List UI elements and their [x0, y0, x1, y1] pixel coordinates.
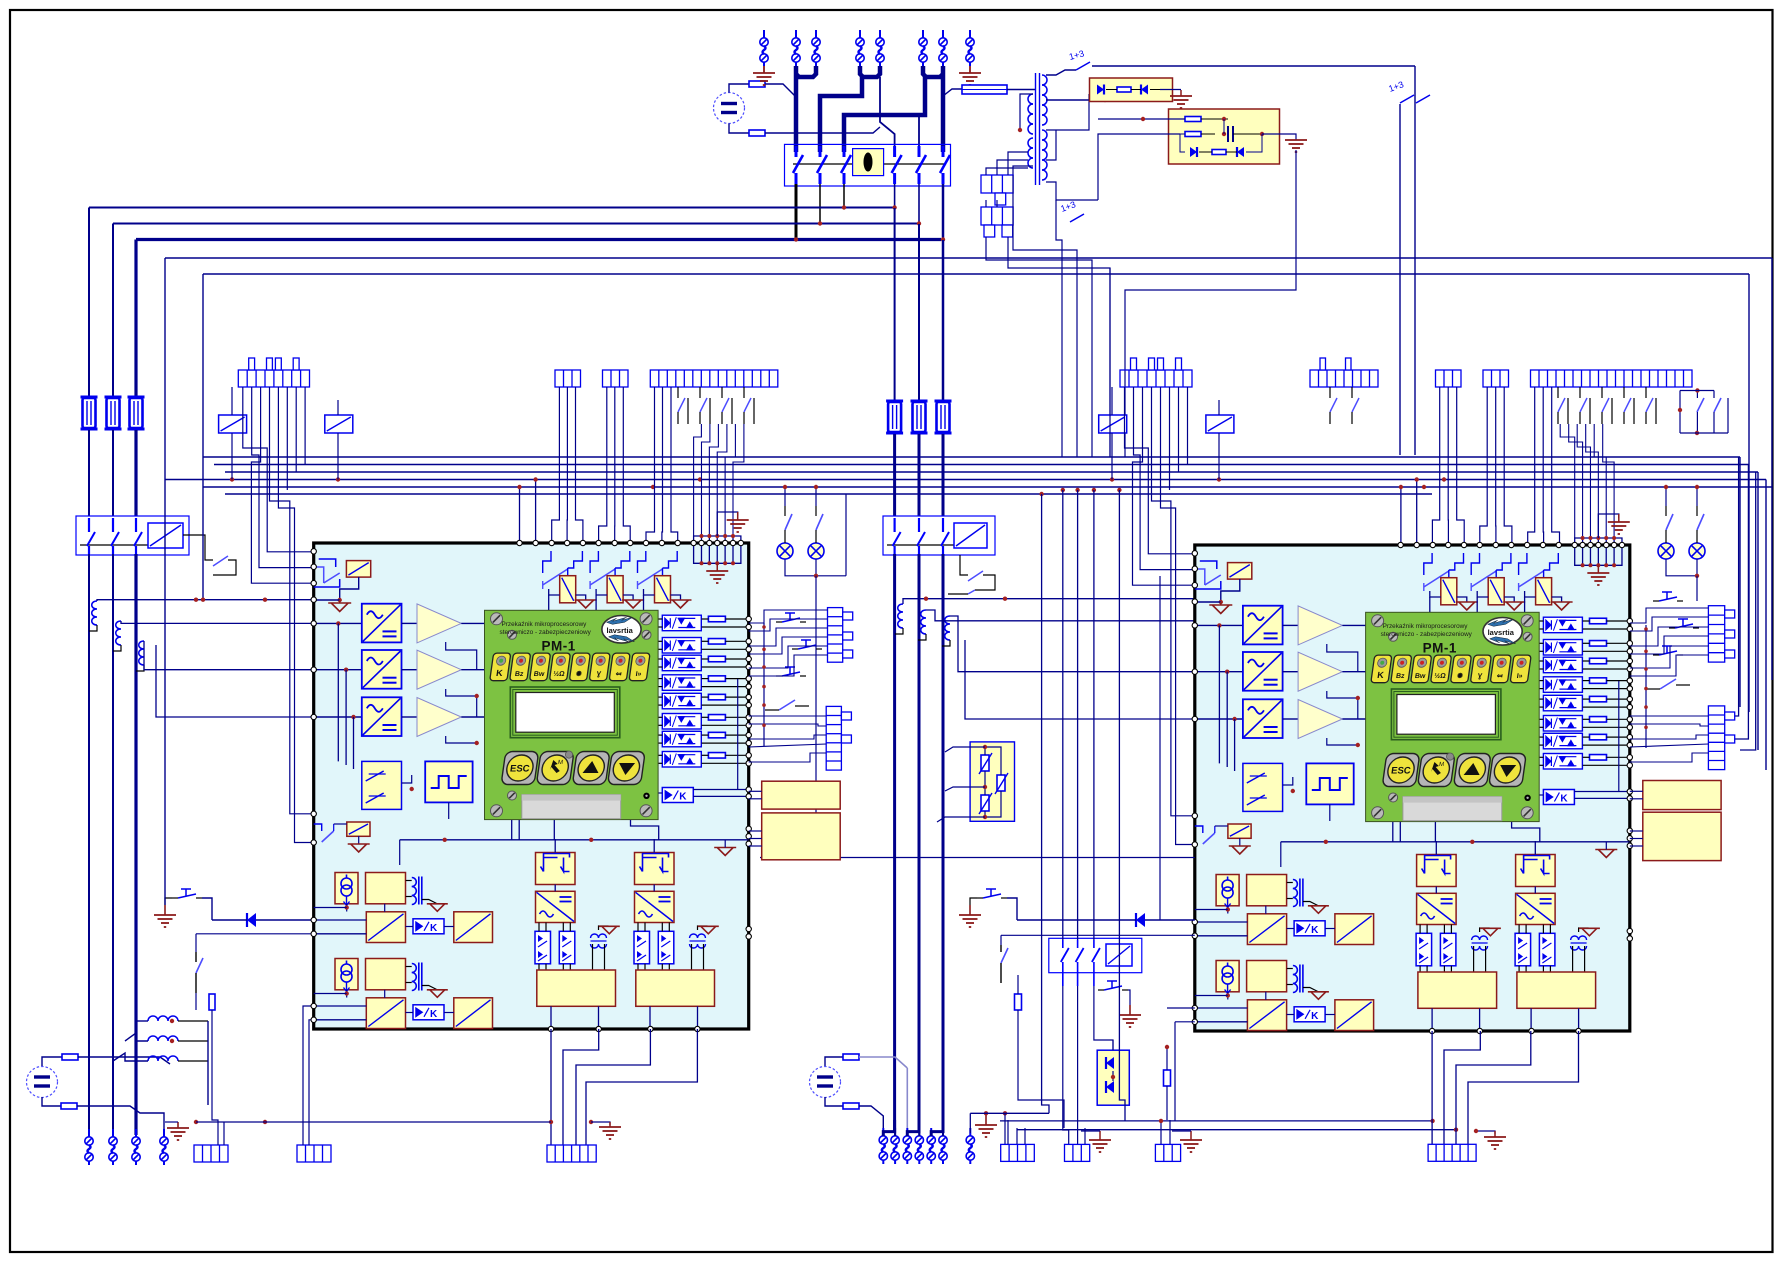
- wire: [1572, 946, 1574, 972]
- pin: [746, 794, 751, 799]
- strip cross wire: [760, 857, 1195, 859]
- band w2: [214, 464, 1749, 466]
- push button S4: [983, 889, 1001, 898]
- svg-text:K: K: [430, 1009, 438, 1020]
- feed M1 p599: [97, 600, 314, 601]
- Q3 relay: [954, 523, 987, 548]
- varistor box: [970, 742, 1014, 821]
- Q3 pole 3: [942, 518, 944, 532]
- amplifier A3: [1298, 700, 1342, 739]
- left bus 1c: [88, 554, 90, 1135]
- ground under X1: [763, 66, 765, 73]
- wire: [1227, 992, 1229, 1000]
- PSU2 CT box: [335, 959, 358, 990]
- wire: [637, 923, 639, 932]
- pin: [1446, 542, 1451, 547]
- wire: [165, 898, 172, 905]
- connector XC1: [1120, 370, 1192, 387]
- opto row 3: [662, 655, 701, 671]
- center vert 5: [1119, 490, 1125, 1121]
- aux switch LL: [314, 824, 322, 831]
- terminal Z4: [915, 1128, 923, 1164]
- diode box: [1097, 1050, 1129, 1105]
- wire: [859, 1106, 883, 1130]
- lamp H2: [808, 543, 824, 559]
- comb CB2: [1428, 1144, 1476, 1161]
- pin: [1596, 542, 1601, 547]
- wire row 2: [314, 716, 362, 718]
- wire: [1583, 680, 1590, 682]
- terminal X3: [812, 30, 820, 66]
- switch block: [1243, 763, 1283, 811]
- pin: [1627, 717, 1632, 722]
- Q2 pole 3: [135, 518, 137, 532]
- wire: [819, 184, 821, 224]
- ground tri PSU1: [1308, 906, 1329, 914]
- opto row 7: [1543, 733, 1582, 749]
- pin: [1627, 658, 1632, 663]
- pin: [746, 740, 751, 745]
- converter U2.1: [1243, 606, 1283, 645]
- terminal Z3: [903, 1128, 911, 1164]
- Q3 aux contact: [968, 571, 983, 581]
- wires into CM1: [1007, 1120, 1009, 1144]
- wire: [1435, 887, 1437, 894]
- relay K3: [655, 576, 671, 603]
- wire: [1534, 887, 1536, 894]
- resistor R13: [1015, 994, 1022, 1010]
- diode D7: [1106, 1057, 1114, 1069]
- opto return collector M2: [1645, 625, 1647, 748]
- Q2 pole 2: [112, 518, 114, 532]
- pin: [746, 834, 751, 839]
- res row 4: [708, 676, 725, 682]
- conv box 1: [536, 891, 576, 922]
- feed M2 p625: [926, 610, 1195, 621]
- pin: [715, 540, 720, 545]
- pin: [1627, 704, 1632, 709]
- Q3 pole 2: [918, 518, 920, 532]
- wire: [549, 589, 560, 595]
- pulse TR 2: [1571, 936, 1587, 950]
- svg-text:Przekaźnik mikroprocesorowy: Przekaźnik mikroprocesorowy: [1383, 623, 1469, 630]
- center bus drop 1: [894, 208, 896, 400]
- pin: [746, 934, 751, 939]
- wire: [1480, 928, 1490, 932]
- wire: [1128, 990, 1130, 1005]
- wire: [165, 1121, 178, 1123]
- amplifier A1: [1298, 606, 1342, 645]
- center bus drop 3: [942, 240, 945, 400]
- wire: [729, 84, 749, 93]
- pin: [699, 540, 704, 545]
- svg-text:✺: ✺: [575, 670, 582, 678]
- button UP: [572, 752, 610, 785]
- stair 4: [1008, 237, 1110, 457]
- relay KA4: [1206, 415, 1234, 433]
- relay K3: [1536, 578, 1552, 605]
- PSU2 coil: [1293, 965, 1303, 993]
- pin: [1192, 933, 1197, 938]
- aux contact XD4-3: [1601, 387, 1603, 398]
- wire: [196, 1121, 330, 1123]
- pin: [1192, 583, 1197, 588]
- opto return collector M1: [763, 623, 765, 746]
- wire: [1007, 898, 1017, 920]
- driver box 2: [636, 970, 715, 1006]
- ground tri TR2: [1579, 928, 1600, 936]
- driver box 1: [1418, 972, 1497, 1008]
- wire: [77, 1106, 164, 1133]
- varistor RV3: [981, 795, 989, 811]
- wire: [211, 1010, 213, 1106]
- LED button ✺: [569, 653, 590, 681]
- pin: [1461, 542, 1466, 547]
- wire row 2: [1195, 718, 1243, 720]
- PSU2 K opto: [1294, 1007, 1325, 1022]
- fuse F4: [962, 85, 1007, 94]
- wire: [1525, 591, 1536, 597]
- right pushbtn 1: [1659, 592, 1677, 601]
- svg-text:lavѕrtia: lavѕrtia: [607, 626, 634, 635]
- IGBT box 2: [635, 853, 675, 885]
- wire: [1098, 118, 1185, 120]
- wire: [702, 734, 709, 736]
- pin: [1588, 542, 1593, 547]
- wire: [1434, 822, 1436, 842]
- pin: [1398, 542, 1403, 547]
- PSU1 main box: [366, 873, 406, 904]
- wire: [402, 716, 418, 718]
- connector XD2: [1436, 370, 1462, 387]
- band drop M1b: [535, 480, 537, 544]
- tri out stair: [446, 642, 477, 670]
- wire: [765, 127, 880, 133]
- wire: [1399, 104, 1401, 455]
- LED button Ɣ: [1470, 655, 1491, 683]
- res row 7: [708, 732, 725, 738]
- ground tri K1: [575, 600, 597, 608]
- wire mid horiz: [400, 839, 749, 841]
- wire: [1017, 975, 1019, 994]
- button DN: [608, 752, 646, 785]
- opto 2.2: [658, 931, 674, 964]
- wire M2 SE: [1167, 1007, 1195, 1009]
- junction dots rows: [336, 621, 340, 625]
- resistor R14: [1164, 1070, 1171, 1086]
- center vert 3: [1077, 490, 1079, 940]
- pin: [311, 667, 316, 672]
- relay K1: [560, 576, 576, 603]
- junction dots bus rows: [842, 205, 846, 209]
- connector XD4: [1531, 370, 1693, 387]
- CT coil L3: [139, 641, 144, 665]
- wire right col: [1618, 681, 1620, 792]
- wire: [1004, 1113, 1006, 1144]
- pin: [746, 702, 751, 707]
- terminal Z2: [891, 1128, 899, 1164]
- diode D2: [1097, 85, 1104, 95]
- wire: [314, 1005, 367, 1007]
- wire: [1287, 882, 1293, 884]
- wire: [314, 599, 340, 601]
- pin: [648, 1026, 653, 1031]
- converter U2.2: [1243, 652, 1283, 691]
- ground tri PSU2: [1308, 992, 1329, 1000]
- terminal Z6: [939, 1128, 947, 1164]
- Q2 aux wire: [183, 535, 213, 560]
- wire: [1283, 671, 1299, 673]
- pin: [311, 621, 316, 626]
- mid yellow box 1: [762, 781, 841, 809]
- PSU1 K opto: [413, 919, 444, 934]
- wire gnd: [1303, 988, 1318, 992]
- terminal X4: [856, 30, 864, 66]
- breaker Q1 box: [785, 144, 951, 186]
- wires module2 to boxes: [1630, 790, 1643, 792]
- terminal X8: [966, 30, 974, 66]
- bus row B: [113, 223, 917, 225]
- PSU2 K opto: [413, 1005, 444, 1020]
- res row 5: [708, 694, 725, 700]
- wire: [1579, 928, 1589, 932]
- wire: [1542, 925, 1544, 934]
- comb CT2: [981, 207, 1013, 225]
- mid yellow box 2: [762, 813, 841, 860]
- aux contact XB3-2: [699, 387, 701, 398]
- snubber box B: [1169, 109, 1280, 164]
- pin: [746, 787, 751, 792]
- wire: [702, 618, 709, 620]
- pin: [746, 826, 751, 831]
- pin: [1192, 623, 1197, 628]
- ground: [969, 905, 971, 915]
- band drop M2a: [1400, 487, 1402, 545]
- pin: [1540, 542, 1545, 547]
- XB1 drops: [552, 387, 560, 543]
- Q2 pole 1: [88, 518, 90, 532]
- wire: [212, 919, 247, 921]
- Q3 pole 1: [893, 518, 895, 532]
- Q4 pole 1: [1062, 940, 1064, 948]
- pin: [1627, 696, 1632, 701]
- ground tri PSU1: [427, 904, 448, 912]
- svg-text:sterowniczo - zabezpieczeniowy: sterowniczo - zabezpieczeniowy: [1381, 631, 1473, 638]
- CT coil C1: [898, 604, 903, 628]
- pin: [1627, 666, 1632, 671]
- pin: [1627, 796, 1632, 801]
- wire: [78, 1057, 170, 1064]
- fuse F2: [105, 397, 122, 429]
- left drop x203: [202, 274, 204, 600]
- transformer T1 core: [1035, 73, 1037, 185]
- svg-text:½Ω: ½Ω: [553, 670, 566, 678]
- pin: [659, 540, 664, 545]
- opto row 3: [1543, 657, 1582, 673]
- contact sym 2: [590, 551, 598, 573]
- tri out stair: [1327, 644, 1358, 672]
- wire: [384, 904, 386, 912]
- wire: [1287, 968, 1293, 970]
- res row 1: [708, 616, 725, 622]
- ground Q4: [1129, 1005, 1131, 1015]
- pin: [580, 540, 585, 545]
- center bus 1c: [893, 554, 896, 1132]
- svg-text:K: K: [430, 923, 438, 934]
- XD4 elbow drops: [1560, 424, 1575, 538]
- box B wires: [1201, 118, 1228, 120]
- pin: [311, 1003, 316, 1008]
- pin: [738, 540, 743, 545]
- resistor R3: [62, 1054, 78, 1060]
- XD4 drops: [1528, 387, 1535, 545]
- opto 1.1: [535, 931, 551, 964]
- pin: [1627, 742, 1632, 747]
- module2 bottom wires: [1431, 1031, 1433, 1144]
- pulse TR 2: [690, 934, 706, 948]
- bus L3 step: [844, 75, 925, 152]
- wire: [511, 820, 513, 840]
- PSU1 CT sym: [341, 875, 352, 906]
- aux contact XB3-3: [721, 387, 723, 398]
- band w6: [225, 493, 1432, 495]
- lamp H1: [777, 543, 793, 559]
- bottom slot: [1403, 797, 1502, 821]
- ground tri K1: [1456, 602, 1478, 610]
- resistor R10: [843, 1054, 859, 1060]
- dc source G3: [810, 1067, 841, 1098]
- wires into CM3: [1160, 1120, 1162, 1144]
- wire: [1013, 166, 1033, 175]
- pin: [1414, 542, 1419, 547]
- wire gnd: [422, 986, 437, 990]
- LED button Bw: [1411, 655, 1432, 683]
- wire row 1: [1195, 671, 1243, 673]
- connector XD3: [1483, 370, 1509, 387]
- conv box 2: [635, 891, 675, 922]
- wire: [1583, 736, 1590, 738]
- wire: [1265, 992, 1267, 1000]
- pin: [311, 811, 316, 816]
- comb CM3: [1155, 1144, 1180, 1161]
- pin: [746, 715, 751, 720]
- wire: [599, 926, 609, 930]
- band right drops: [1739, 457, 1741, 707]
- pin: [1192, 551, 1197, 556]
- wire: [702, 658, 709, 660]
- ground tri K3: [670, 600, 692, 608]
- ground tri TR1: [599, 926, 620, 934]
- wire: [1583, 620, 1590, 622]
- pin: [707, 540, 712, 545]
- LCD display: [510, 687, 620, 738]
- opto row 1: [662, 615, 701, 631]
- Q4 pole continuations: [1063, 986, 1069, 1144]
- svg-text:⤆: ⤆: [1496, 673, 1503, 680]
- button indicator dot: [565, 751, 572, 758]
- relay K2: [607, 576, 623, 603]
- breaker Q1 bar: [793, 163, 944, 165]
- wire mid horiz: [1281, 841, 1630, 843]
- svg-text:K: K: [679, 792, 687, 803]
- ground tri TL: [1220, 602, 1222, 605]
- vcomb VM1 stubs: [843, 612, 853, 620]
- feed M2 p601: [903, 599, 1195, 604]
- wire: [42, 1057, 62, 1066]
- Q2 aux contact: [213, 556, 228, 566]
- resistor R7: [1185, 117, 1201, 122]
- pin: [746, 639, 751, 644]
- T1 sec winding 2: [1028, 138, 1033, 148]
- wire: [1329, 804, 1331, 821]
- left bus 3b: [134, 430, 137, 516]
- ground: [164, 905, 166, 915]
- wire: [1227, 906, 1229, 914]
- connector XB3: [650, 370, 778, 387]
- pin: [695, 1026, 700, 1031]
- bus L2 step: [820, 75, 862, 152]
- opto row 8: [662, 752, 701, 768]
- right contact 4: [1660, 679, 1676, 689]
- LED button ✺: [1450, 655, 1471, 683]
- center bus 2b: [918, 434, 921, 516]
- contact sym 2: [1471, 553, 1479, 575]
- CT coil L2: [116, 621, 121, 645]
- pin: [1611, 542, 1616, 547]
- pin: [1627, 843, 1632, 848]
- aux contact XD4-1: [1557, 387, 1559, 398]
- left bus 3c: [134, 554, 137, 1135]
- ground tri TR1: [1480, 928, 1501, 936]
- IGBT box 1: [1417, 855, 1457, 887]
- opto row 6: [1543, 716, 1582, 732]
- wire: [918, 184, 920, 224]
- lamp switch 2: [815, 506, 817, 516]
- wire gnd: [422, 900, 437, 904]
- wire: [1020, 94, 1033, 130]
- pin: [1192, 1005, 1197, 1010]
- pin: [1429, 1028, 1434, 1033]
- wire: [894, 184, 896, 208]
- dc source G1: [714, 93, 745, 124]
- wires into CM2: [1084, 1128, 1086, 1144]
- wire: [402, 775, 412, 783]
- ground tri right: [1595, 850, 1617, 858]
- pin: [311, 840, 316, 845]
- pin: [517, 540, 522, 545]
- pin: [746, 676, 751, 681]
- pin: [311, 581, 316, 586]
- left bus 3: [134, 240, 137, 397]
- connector XB2: [603, 370, 629, 387]
- wire: [550, 1006, 552, 1029]
- gnd bracket below: [694, 543, 741, 563]
- relay K1: [1441, 578, 1457, 605]
- pin: [1627, 755, 1632, 760]
- aux switch LL: [1195, 826, 1203, 833]
- coil trio bottom-left: [148, 1016, 178, 1021]
- wire: [1583, 718, 1590, 720]
- fuse F1: [81, 397, 98, 429]
- res row 3: [708, 656, 725, 662]
- center bus drop 2: [918, 224, 920, 400]
- push button S5: [1104, 981, 1122, 990]
- wire: [1574, 791, 1630, 793]
- wire: [693, 789, 749, 791]
- opto 2.1: [634, 931, 650, 964]
- opto 1.1: [1416, 933, 1432, 966]
- gnd bracket ground: [1597, 565, 1599, 573]
